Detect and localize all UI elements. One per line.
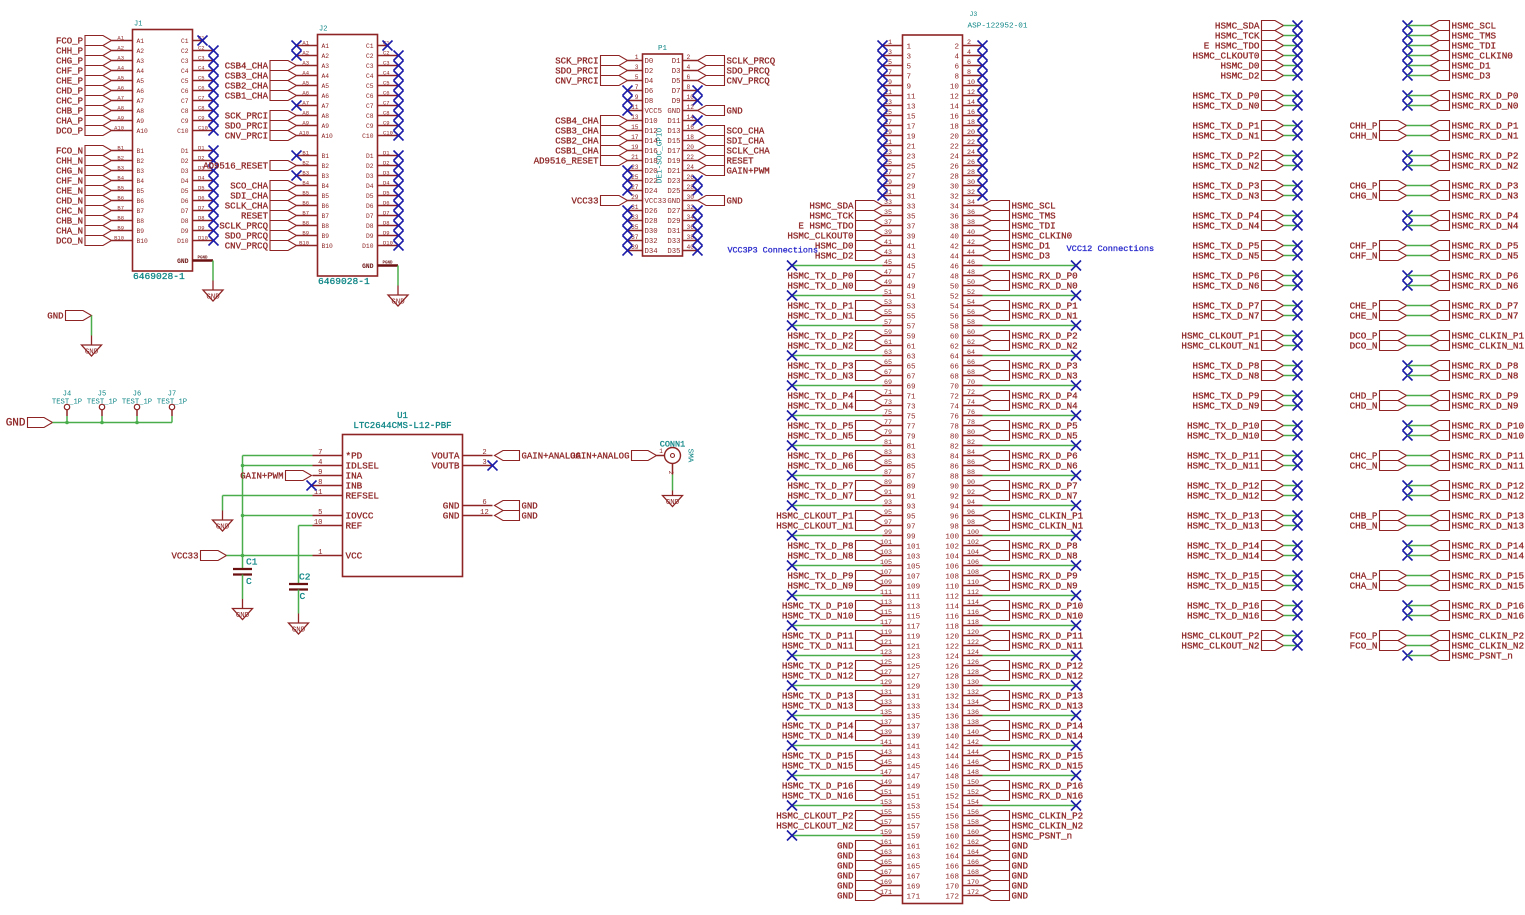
svg-text:123: 123: [907, 653, 921, 661]
svg-text:9: 9: [318, 469, 322, 477]
hierarchical label GND: [837, 851, 883, 862]
hierarchical label CSB1_CHA: [555, 146, 627, 157]
svg-text:B3: B3: [322, 173, 330, 180]
hierarchical label SCO_CHA: [698, 126, 765, 137]
hierarchical label HSMC_TDI: [1431, 41, 1497, 52]
svg-text:SMA: SMA: [686, 449, 694, 463]
P1 pin 40: [667, 244, 697, 256]
J1 pin D4: [181, 174, 214, 185]
svg-text:37: 37: [884, 219, 892, 227]
hierarchical label HSMC_RX_D_N15: [983, 761, 1084, 772]
svg-text:155: 155: [907, 813, 921, 821]
svg-text:118: 118: [945, 623, 959, 631]
svg-text:5: 5: [907, 63, 912, 71]
wire J3.63: [792, 355, 883, 357]
svg-text:HSMC_TX_D_N1: HSMC_TX_D_N1: [787, 311, 854, 322]
wire to HSMC_RX_D_P16: [1408, 605, 1431, 607]
svg-text:1: 1: [635, 54, 639, 61]
no-connect HSMC_TX_D_P2: [1293, 151, 1303, 161]
no-connect HSMC_TX_D_N5: [1293, 251, 1303, 261]
svg-text:132: 132: [967, 689, 979, 697]
svg-text:124: 124: [945, 653, 959, 661]
svg-text:B2: B2: [302, 159, 309, 166]
hierarchical label HSMC_RX_D_N4: [1431, 221, 1519, 232]
hierarchical label HSMC_RX_D_N0: [1431, 101, 1519, 112]
svg-text:D24: D24: [645, 188, 659, 196]
svg-text:39: 39: [884, 229, 892, 237]
svg-text:139: 139: [907, 733, 921, 741]
svg-text:89: 89: [907, 483, 917, 491]
hierarchical label HSMC_RX_D_N13: [983, 701, 1084, 712]
no-connect HSMC_RX_D_P0 (right column): [1403, 91, 1413, 101]
hierarchical label FCO_P: [56, 36, 112, 47]
svg-text:B1: B1: [117, 144, 124, 151]
P1 pin 6: [672, 74, 698, 86]
svg-text:46: 46: [950, 263, 960, 271]
J2 pin B6: [297, 199, 330, 210]
svg-text:C: C: [300, 591, 306, 602]
wire HSMC_TX_D_P7: [1284, 305, 1298, 307]
hierarchical label HSMC_RX_D_N11: [1431, 461, 1525, 472]
svg-text:64: 64: [950, 353, 960, 361]
J1 pin B9: [112, 224, 145, 235]
svg-text:112: 112: [967, 589, 979, 597]
svg-text:C1: C1: [246, 557, 258, 568]
no-connect HSMC_RX_D_P10 (right column): [1403, 421, 1413, 431]
J3 pin 131: [880, 689, 921, 701]
no-connect HSMC_TX_D_N14: [1293, 551, 1303, 561]
hierarchical label CHH_N: [1350, 131, 1407, 142]
J3 pin 167: [880, 869, 920, 881]
J3 pin 163: [880, 849, 921, 861]
J2 pin A2: [297, 49, 330, 60]
hierarchical label CHD_N: [56, 196, 112, 207]
svg-text:100: 100: [967, 529, 979, 537]
hierarchical label CHE_P: [56, 76, 112, 87]
svg-text:HSMC_RX_D_N9: HSMC_RX_D_N9: [1452, 401, 1519, 412]
wire HSMC_TX_D_P2: [1284, 155, 1298, 157]
no-connect P1.36: [693, 226, 703, 236]
J3 pin 55: [883, 309, 917, 321]
J1 pin A9: [112, 114, 145, 125]
svg-text:77: 77: [907, 423, 916, 431]
svg-text:A2: A2: [322, 53, 330, 60]
svg-text:7: 7: [888, 69, 892, 77]
svg-text:D8: D8: [181, 218, 189, 225]
svg-text:HSMC_TX_D_N10: HSMC_TX_D_N10: [782, 611, 854, 622]
wire HSMC_TX_D_N12: [1284, 495, 1298, 497]
svg-text:50: 50: [967, 279, 975, 287]
svg-text:D2: D2: [198, 154, 205, 161]
svg-text:56: 56: [950, 313, 960, 321]
svg-text:34: 34: [950, 203, 960, 211]
hierarchical label HSMC_TX_D_N8 (mid column): [1193, 371, 1284, 382]
hierarchical label SDO_PRCI: [555, 66, 627, 77]
hierarchical label HSMC_RX_D_N5: [1431, 251, 1519, 262]
hierarchical label HSMC_RX_D_P11: [1431, 451, 1525, 462]
no-connect HSMC_RX_D_N0 (right column): [1403, 101, 1413, 111]
svg-text:90: 90: [967, 479, 975, 487]
J3 pin 155: [880, 809, 921, 821]
hierarchical label HSMC_RX_D_P16: [983, 781, 1084, 792]
svg-text:D7: D7: [198, 204, 205, 211]
wire CHD_P to HSMC_RX_D_P9: [1407, 395, 1431, 397]
J1 pin A3: [112, 54, 145, 65]
wire J5: [101, 416, 103, 423]
no-connect J3.64: [1071, 351, 1081, 361]
hierarchical label HSMC_TX_D_P1: [787, 301, 882, 312]
svg-text:PGND: PGND: [197, 257, 208, 261]
hierarchical label GAIN+ANALOG (source): [570, 451, 656, 462]
svg-text:135: 135: [907, 713, 921, 721]
J1 pin C3: [181, 54, 214, 65]
J2 pin A3: [297, 59, 330, 70]
svg-text:HSMC_TX_D_N12: HSMC_TX_D_N12: [1187, 491, 1260, 502]
hierarchical label HSMC_TX_D_N16 (mid column): [1187, 611, 1284, 622]
hierarchical label HSMC_CLKIN_P1: [983, 511, 1084, 522]
svg-text:10: 10: [314, 519, 323, 527]
hierarchical label HSMC_CLKIN0: [1431, 51, 1513, 62]
J3 pin 138: [945, 719, 982, 731]
svg-text:HSMC_RX_D_N4: HSMC_RX_D_N4: [1012, 401, 1079, 412]
P1 pin 27: [628, 184, 659, 196]
J3 pin 10: [950, 79, 983, 91]
wire HSMC_TX_D_N2: [1284, 165, 1298, 167]
svg-text:B10: B10: [137, 238, 149, 245]
U1 pin 11 REFSEL: [313, 489, 379, 502]
J3 pin 5: [883, 59, 912, 71]
hierarchical label SCO_CHA: [230, 181, 296, 192]
J3 pin 146: [945, 759, 982, 771]
wire J3.99: [792, 535, 883, 537]
wire HSMC_TX_D_N11: [1284, 465, 1298, 467]
J3 pin 160: [945, 829, 982, 841]
wire HSMC_TX_D_N8: [1284, 375, 1298, 377]
J3 pin 29: [883, 179, 917, 191]
J3 pin 22: [950, 139, 983, 151]
svg-text:169: 169: [907, 883, 921, 891]
no-connect HSMC_TX_D_N16: [1293, 611, 1303, 621]
J3 pin 148: [945, 769, 982, 781]
no-connect J1.D4: [209, 176, 219, 186]
hierarchical label HSMC_TX_D_N0 (mid column): [1193, 101, 1284, 112]
no-connect HSMC_TX_D_P11: [1293, 451, 1303, 461]
hierarchical label VCC33: [571, 196, 627, 207]
svg-text:154: 154: [945, 803, 959, 811]
no-connect J3.27: [878, 171, 888, 181]
svg-text:C9: C9: [181, 118, 189, 125]
hierarchical label HSMC_D3: [1431, 71, 1491, 82]
J2 pin A5: [297, 79, 330, 90]
no-connect J3.117: [787, 621, 797, 631]
hierarchical label HSMC_RX_D_N12: [983, 671, 1084, 682]
hierarchical label HSMC_TX_D_P15 (mid column): [1187, 571, 1284, 582]
svg-text:B10: B10: [322, 243, 334, 250]
svg-text:HSMC_RX_D_N13: HSMC_RX_D_N13: [1452, 521, 1525, 532]
no-connect J2.D5: [394, 191, 404, 201]
wire HSMC_TX_D_P13: [1284, 515, 1298, 517]
no-connect J2.B1: [292, 151, 302, 161]
hierarchical label HSMC_RX_D_P7: [983, 481, 1078, 492]
hierarchical label HSMC_D2: [815, 251, 883, 262]
svg-text:168: 168: [945, 873, 959, 881]
svg-text:HSMC_D2: HSMC_D2: [1220, 71, 1259, 82]
hierarchical label SCK_PRCI: [225, 111, 297, 122]
hierarchical label HSMC_RX_D_P15: [983, 751, 1084, 762]
wire to HSMC_RX_D_P6: [1408, 275, 1431, 277]
svg-text:157: 157: [907, 823, 921, 831]
svg-text:100: 100: [945, 533, 959, 541]
svg-text:116: 116: [945, 613, 959, 621]
svg-text:67: 67: [884, 369, 892, 377]
svg-text:GAIN+PWM: GAIN+PWM: [727, 167, 770, 177]
no-connect J3.5: [878, 61, 888, 71]
J3 pin 98: [950, 519, 983, 531]
J3 pin 135: [880, 709, 921, 721]
no-connect J1.C8: [209, 106, 219, 116]
J1 pin A1: [112, 34, 145, 45]
wire IDLSEL: [243, 465, 313, 467]
hierarchical label GND: [983, 861, 1029, 872]
no-connect P1.38: [693, 236, 703, 246]
svg-text:85: 85: [907, 463, 917, 471]
hierarchical label HSMC_TX_D_N2: [787, 341, 882, 352]
svg-text:D17: D17: [667, 148, 680, 156]
svg-text:GND: GND: [666, 499, 680, 507]
svg-text:129: 129: [907, 683, 921, 691]
J3 pin 25: [883, 159, 917, 171]
svg-text:156: 156: [945, 813, 959, 821]
P1 pin 14: [667, 114, 697, 126]
J3 pin 132: [945, 689, 982, 701]
svg-text:116: 116: [967, 609, 979, 617]
P1 pin 25: [628, 174, 658, 186]
J3 pin 96: [950, 509, 983, 521]
hierarchical label CHF_N: [56, 176, 112, 187]
J3 pin 70: [950, 379, 983, 391]
hierarchical label HSMC_TCK: [809, 211, 882, 222]
hierarchical label GAIN+PWM: [240, 471, 311, 482]
hierarchical label HSMC_TX_D_P5: [787, 421, 882, 432]
J2 pin B1: [297, 149, 330, 160]
no-connect HSMC_RX_D_N10 (right column): [1403, 431, 1413, 441]
svg-text:B8: B8: [302, 219, 309, 226]
wire HSMC_TX_D_N1: [1284, 135, 1298, 137]
no-connect HSMC_TX_D_N6: [1293, 281, 1303, 291]
hierarchical label HSMC_RX_D_P6: [983, 451, 1078, 462]
hierarchical label GAIN+PWM: [698, 166, 770, 177]
J3 pin 77: [883, 419, 916, 431]
no-connect HSMC_TX_D_N10: [1293, 431, 1303, 441]
junction VCC: [241, 554, 245, 558]
hierarchical label HSMC_TX_D_N7 (mid column): [1193, 311, 1284, 322]
J1 pin C6: [181, 84, 214, 95]
wire J3.82: [983, 445, 1077, 447]
hierarchical label CHC_N: [56, 206, 112, 217]
svg-text:CHF_N: CHF_N: [1350, 251, 1378, 262]
svg-text:D26: D26: [645, 208, 658, 216]
J2 pin C8: [366, 109, 399, 120]
wire to HSMC_RX_D_P4: [1408, 215, 1431, 217]
no-connect HSMC_TX_D_P4: [1293, 211, 1303, 221]
hierarchical label HSMC_TX_D_P1 (mid column): [1193, 121, 1284, 132]
hierarchical label HSMC_CLKOUT_P1: [776, 511, 882, 522]
wire J3.100: [983, 535, 1077, 537]
J2 pin A4: [297, 69, 330, 80]
no-connect HSMC_TCK: [1293, 31, 1303, 41]
hierarchical label GND (U1 pin6): [495, 501, 538, 512]
P1 pin 19: [628, 144, 658, 156]
svg-text:GND: GND: [292, 626, 306, 634]
U1 pin 4 IDLSEL: [313, 459, 379, 472]
svg-text:48: 48: [967, 269, 975, 277]
no-connect P1.28: [693, 186, 703, 196]
svg-text:21: 21: [907, 143, 917, 151]
no-connect J3.58: [1071, 321, 1081, 331]
svg-text:A7: A7: [117, 94, 124, 101]
svg-text:61: 61: [884, 339, 892, 347]
svg-text:D8: D8: [383, 219, 390, 226]
svg-text:53: 53: [907, 303, 917, 311]
J3 pin 62: [950, 339, 983, 351]
svg-text:163: 163: [907, 853, 921, 861]
svg-text:151: 151: [907, 793, 921, 801]
svg-text:A4: A4: [322, 73, 330, 80]
svg-text:D30: D30: [645, 228, 658, 236]
hierarchical label DCO_N: [1350, 341, 1407, 352]
svg-text:119: 119: [907, 633, 921, 641]
svg-text:6: 6: [967, 59, 971, 67]
svg-text:42: 42: [950, 243, 960, 251]
svg-text:4: 4: [954, 53, 959, 61]
svg-text:14: 14: [967, 99, 975, 107]
P1 pin 13: [628, 114, 658, 126]
svg-text:D10: D10: [645, 118, 658, 126]
wire J3.106: [983, 565, 1077, 567]
svg-text:D12: D12: [645, 128, 658, 136]
J3 pin 28: [950, 169, 983, 181]
no-connect J3.136: [1071, 711, 1081, 721]
svg-text:J4: J4: [63, 391, 71, 399]
hierarchical label GAIN+ANALOG (sink): [495, 451, 581, 462]
hierarchical label HSMC_RX_D_P12: [983, 661, 1084, 672]
no-connect HSMC_TX_D_N3: [1293, 191, 1303, 201]
svg-text:C2: C2: [198, 44, 205, 51]
hierarchical label HSMC_TX_D_P7 (mid column): [1193, 301, 1284, 312]
no-connect J2.D10: [394, 241, 404, 251]
hierarchical label HSMC_CLKOUT_P2: [776, 811, 882, 822]
hierarchical label HSMC_TX_D_P13: [782, 691, 883, 702]
svg-text:19: 19: [631, 144, 639, 151]
svg-text:C3: C3: [366, 63, 374, 70]
svg-text:36: 36: [950, 213, 960, 221]
wire to HSMC_RX_D_P2: [1408, 155, 1431, 157]
no-connect J3.123: [787, 651, 797, 661]
wire CHA_P to HSMC_RX_D_P15: [1407, 575, 1431, 577]
svg-text:B6: B6: [117, 194, 124, 201]
svg-text:HSMC_TX_D_N13: HSMC_TX_D_N13: [782, 701, 854, 712]
hierarchical label E HSMC_TDO: [798, 221, 882, 232]
svg-text:5: 5: [635, 74, 639, 81]
svg-text:72: 72: [950, 393, 960, 401]
J3 pin 164: [945, 849, 982, 861]
svg-text:GND: GND: [727, 197, 743, 207]
svg-text:161: 161: [907, 843, 921, 851]
svg-text:162: 162: [945, 843, 959, 851]
hierarchical label HSMC_TX_D_N6 (mid column): [1193, 281, 1284, 292]
svg-text:46: 46: [967, 259, 975, 267]
hierarchical label HSMC_RX_D_N14: [983, 731, 1084, 742]
P1 pin 15: [628, 124, 658, 136]
svg-text:D2: D2: [366, 163, 374, 170]
J1 pin A4: [112, 64, 145, 75]
svg-text:63: 63: [884, 349, 892, 357]
hierarchical label HSMC_RX_D_P11: [983, 631, 1084, 642]
P1 pin 11: [628, 104, 663, 116]
hierarchical label HSMC_CLKOUT_N2: [776, 821, 882, 832]
svg-text:D4: D4: [181, 178, 189, 185]
svg-text:A9: A9: [137, 118, 145, 125]
svg-text:GND: GND: [667, 198, 681, 206]
svg-text:101: 101: [907, 543, 921, 551]
svg-text:B9: B9: [322, 233, 330, 240]
no-connect J3.22: [978, 141, 988, 151]
hierarchical label RESET: [241, 211, 297, 222]
J1 pin D7: [181, 204, 214, 215]
no-connect HSMC_CLKIN0 (right column): [1403, 51, 1413, 61]
svg-text:69: 69: [907, 383, 917, 391]
svg-text:REF: REF: [346, 521, 363, 532]
svg-text:96: 96: [950, 513, 960, 521]
svg-text:D9: D9: [181, 228, 189, 235]
svg-text:HSMC_TX_D_N2: HSMC_TX_D_N2: [787, 341, 853, 352]
svg-text:144: 144: [945, 753, 959, 761]
J3 pin 97: [883, 519, 916, 531]
svg-text:146: 146: [945, 763, 959, 771]
svg-text:AD9516_RESET: AD9516_RESET: [203, 162, 268, 172]
hierarchical label HSMC_RX_D_P0: [983, 271, 1078, 282]
svg-text:D20: D20: [645, 168, 658, 176]
svg-text:47: 47: [907, 273, 916, 281]
svg-text:67: 67: [907, 373, 916, 381]
svg-text:66: 66: [967, 359, 975, 367]
svg-text:FCO_N: FCO_N: [56, 147, 83, 157]
svg-text:145: 145: [907, 763, 921, 771]
no-connect HSMC_TX_D_P16: [1293, 601, 1303, 611]
svg-text:130: 130: [945, 683, 959, 691]
wire HSMC_TX_D_N7: [1284, 315, 1298, 317]
svg-text:172: 172: [967, 889, 979, 897]
svg-text:56: 56: [967, 309, 975, 317]
svg-text:B1: B1: [137, 148, 145, 155]
svg-text:HSMC_RX_D_N14: HSMC_RX_D_N14: [1012, 731, 1084, 742]
wire HSMC_TX_D_P5: [1284, 245, 1298, 247]
svg-text:62: 62: [950, 343, 960, 351]
svg-text:12: 12: [480, 509, 489, 517]
svg-text:121: 121: [907, 643, 921, 651]
J3 pin 45: [883, 259, 917, 271]
wire CHC_P to HSMC_RX_D_P11: [1407, 455, 1431, 457]
no-connect J3.118: [1071, 621, 1081, 631]
J3 pin 67: [883, 369, 916, 381]
J3 pin 99: [883, 529, 917, 541]
P1 pin 22: [667, 154, 697, 166]
svg-text:97: 97: [884, 519, 892, 527]
svg-text:171: 171: [907, 893, 921, 901]
svg-text:C9: C9: [366, 123, 374, 130]
J3 pin 158: [945, 819, 982, 831]
svg-text:94: 94: [950, 503, 960, 511]
